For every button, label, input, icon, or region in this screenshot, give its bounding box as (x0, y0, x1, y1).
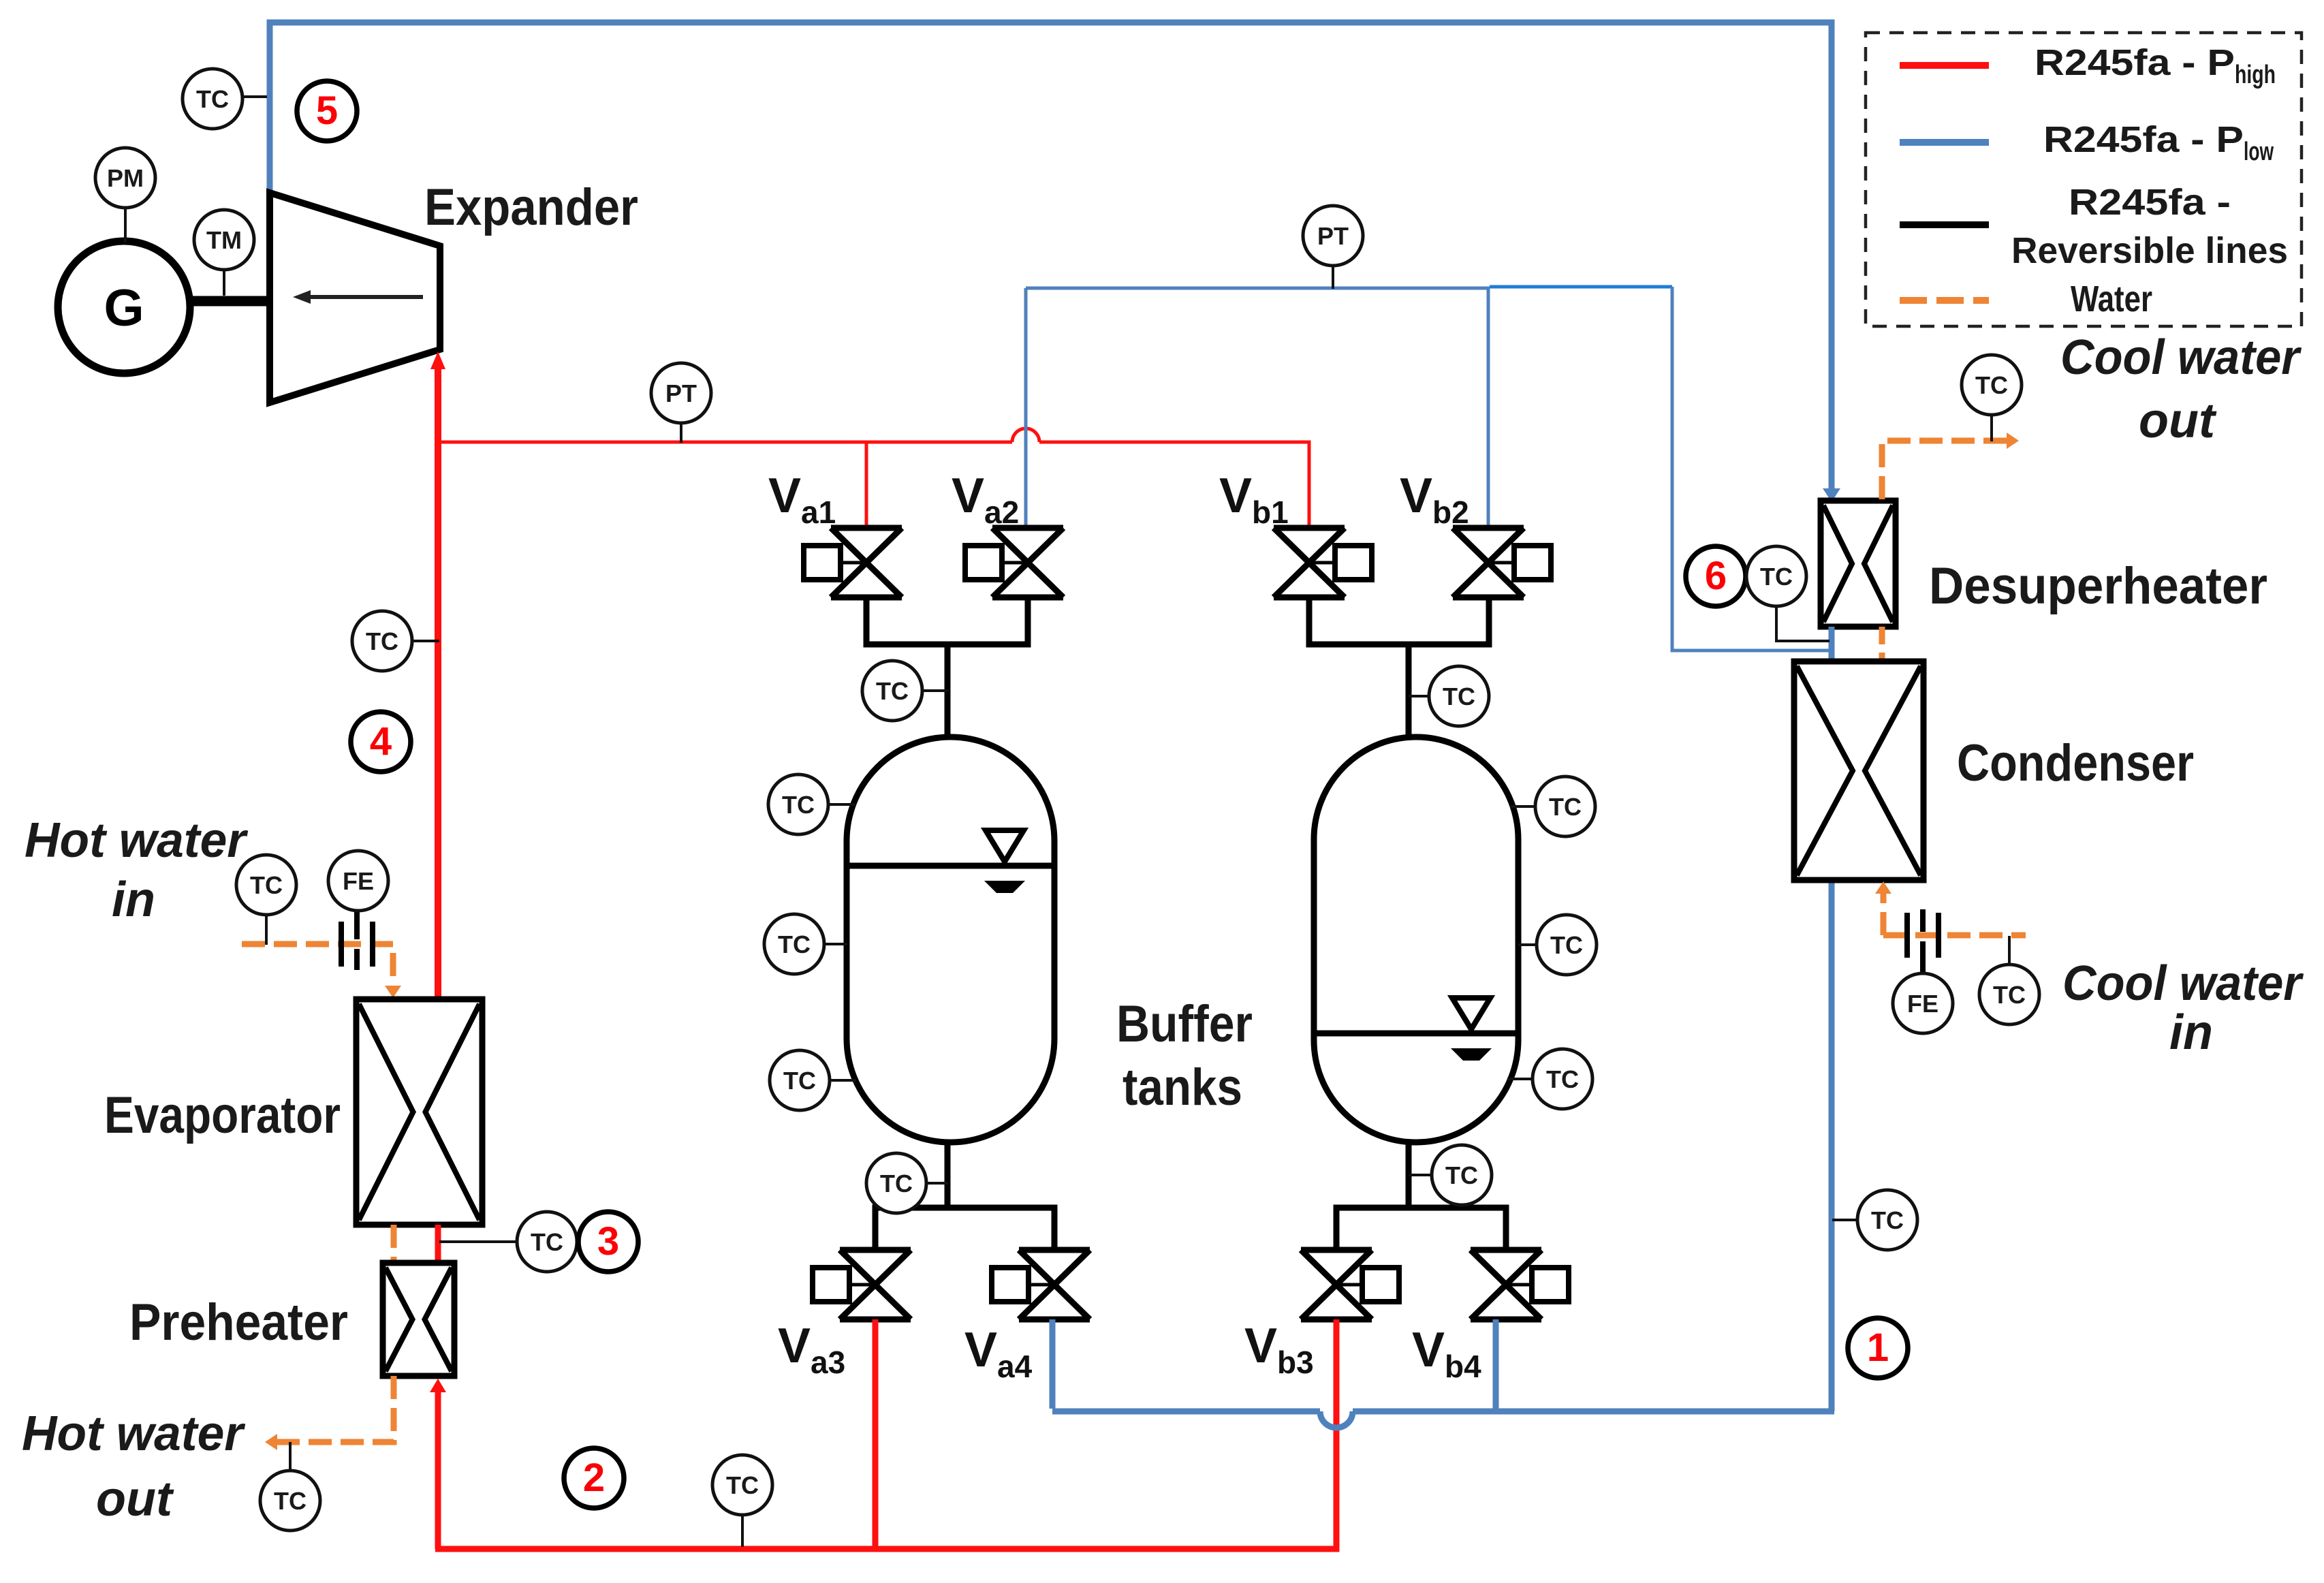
svg-text:TC: TC (782, 791, 815, 819)
legend R245fa-Plow (1900, 119, 2274, 166)
valve Vb4 (1471, 1250, 1569, 1319)
wire reversible tankB bottom manifold (1336, 1142, 1506, 1250)
svg-text:TC: TC (1550, 931, 1583, 959)
svg-text:G: G (104, 279, 144, 337)
wire R245fa-Phigh Vb3 drop (1334, 1319, 1340, 1552)
svg-text:in: in (112, 873, 155, 927)
wire R245fa-Plow manifold drop to condenser inlet (1672, 287, 1830, 651)
svg-text:Expander: Expander (424, 178, 638, 236)
wire reversible tankA top manifold (866, 597, 1028, 740)
svg-text:TC: TC (783, 1067, 816, 1095)
instrument TC tankA middle (764, 914, 847, 974)
wire water cool-water-out (1882, 433, 2019, 499)
svg-text:Desuperheater: Desuperheater (1929, 557, 2267, 615)
valve Vb3 (1301, 1250, 1399, 1319)
svg-text:R245fa - Plow: R245fa - Plow (2043, 119, 2274, 166)
instrument TC line4 (352, 611, 439, 671)
label Hot water in (25, 813, 249, 927)
wire R245fa-Plow Va4 drop (1050, 1319, 1056, 1409)
svg-text:out: out (96, 1472, 174, 1526)
wire R245fa-Phigh header to valves Va1/Vb1 (438, 428, 1309, 528)
instrument TM shaft (194, 210, 254, 296)
label Cool water in (2062, 956, 2304, 1060)
node 4 (351, 712, 411, 772)
wire water cool-water-in (1875, 881, 2026, 935)
svg-text:TC: TC (876, 677, 909, 705)
generator G (58, 241, 190, 373)
svg-text:PT: PT (1317, 222, 1349, 250)
svg-text:6: 6 (1705, 554, 1727, 598)
svg-text:tanks: tanks (1122, 1059, 1242, 1116)
svg-text:TC: TC (1871, 1206, 1904, 1234)
instrument TC expander outlet (183, 69, 267, 129)
wire reversible tankA bottom manifold (875, 1142, 1054, 1250)
label Condenser (1957, 734, 2194, 792)
instrument PT low pressure manifold (1303, 206, 1363, 289)
label Vb1 (1219, 469, 1289, 530)
legend R245fa reversible (1900, 182, 2288, 271)
label Va4 (964, 1323, 1033, 1384)
svg-text:TC: TC (366, 627, 398, 655)
wire R245fa-Phigh Va3 drop (873, 1319, 879, 1549)
expander (turbine) (270, 193, 440, 403)
instrument TC node3 stem (439, 1212, 577, 1272)
node 3 (578, 1212, 638, 1272)
instrument TC tankA upper (768, 774, 855, 834)
wire R245fa-Plow bottom return (1052, 880, 1834, 1428)
valve Va1 (804, 528, 902, 597)
buffer tank B (1314, 737, 1518, 1142)
svg-text:5: 5 (316, 89, 338, 133)
svg-text:Condenser: Condenser (1957, 734, 2194, 792)
svg-text:TC: TC (531, 1228, 563, 1256)
label Desuperheater (1929, 557, 2267, 615)
wire R245fa-Phigh bottom header (435, 1546, 1339, 1552)
valve Va3 (813, 1250, 911, 1319)
wire water desuperheater-condenser (1879, 627, 1885, 661)
svg-text:Buffer: Buffer (1116, 995, 1253, 1053)
instrument TC tankB inlet (1409, 666, 1489, 726)
wire reversible tankB top manifold (1309, 597, 1489, 740)
flow element FE hot water in (328, 851, 388, 970)
svg-text:Hot water: Hot water (25, 813, 249, 868)
legend box (1866, 33, 2302, 326)
instrument TC condenser outlet line (1832, 1190, 1917, 1250)
instrument TC desuperheater (1746, 546, 1830, 641)
instrument TC hot water in (236, 855, 296, 945)
svg-text:TC: TC (726, 1471, 759, 1499)
svg-text:FE: FE (343, 867, 374, 895)
flow element FE cool water in (1893, 909, 1953, 1033)
label Expander (424, 178, 638, 236)
svg-text:1: 1 (1867, 1326, 1889, 1370)
instrument TC tankA inlet (862, 661, 948, 721)
wire R245fa-Phigh evaporator to expander (430, 351, 445, 999)
wire R245fa-Phigh bottom to preheater (430, 1379, 446, 1549)
instrument PM generator (95, 148, 155, 242)
node 1 (1848, 1318, 1908, 1378)
wire R245fa-Plow Vb4 drop (1493, 1319, 1499, 1411)
svg-text:TC: TC (1443, 683, 1475, 710)
svg-text:TC: TC (1546, 1065, 1579, 1093)
instrument PT high pressure header (651, 363, 711, 443)
instrument TC tankB upper (1510, 777, 1595, 836)
label Va1 (768, 469, 836, 530)
svg-text:TC: TC (1993, 981, 2026, 1009)
label Va3 (778, 1319, 845, 1380)
instrument TC tankB outlet (1409, 1145, 1492, 1205)
wire R245fa-Plow top manifold (1026, 287, 1490, 290)
svg-text:TC: TC (196, 85, 229, 113)
label Buffer tanks (1116, 995, 1253, 1116)
svg-text:Hot water: Hot water (22, 1407, 246, 1461)
svg-text:TC: TC (778, 930, 811, 958)
svg-text:4: 4 (370, 719, 392, 764)
valve Va4 (992, 1250, 1090, 1319)
svg-text:R245fa -: R245fa - (2069, 182, 2231, 223)
valve Vb1 (1274, 528, 1372, 597)
label Vb2 (1400, 469, 1469, 530)
node 5 (297, 81, 357, 141)
wire water hot-water-out (265, 1376, 394, 1450)
label Vb4 (1412, 1323, 1481, 1384)
buffer tank A (847, 737, 1054, 1142)
condenser (1794, 661, 1923, 880)
instrument TC tankA outlet (866, 1153, 948, 1213)
valve Va2 (965, 528, 1063, 597)
svg-text:3: 3 (597, 1219, 619, 1264)
label Hot water out (22, 1407, 246, 1526)
instrument TC cool water in (1979, 936, 2039, 1024)
svg-text:PT: PT (665, 379, 697, 407)
instrument TC tankB middle (1518, 915, 1597, 975)
wire R245fa-Plow Va2 riser (1024, 288, 1028, 528)
svg-text:PM: PM (107, 164, 144, 192)
wire R245fa-Plow bright segment (1490, 285, 1672, 289)
svg-text:TM: TM (206, 226, 242, 254)
wire R245fa-Phigh evaporator-preheater (435, 1225, 441, 1263)
instrument TC hot water out (260, 1442, 320, 1531)
svg-text:Cool water: Cool water (2062, 956, 2304, 1011)
label Va2 (952, 469, 1019, 530)
svg-text:Evaporator: Evaporator (104, 1086, 341, 1144)
desuperheater (1821, 501, 1896, 627)
svg-text:Cool water: Cool water (2060, 330, 2302, 385)
shaft generator-expander (190, 296, 271, 307)
valve Vb2 (1453, 528, 1551, 597)
svg-text:Preheater: Preheater (129, 1294, 348, 1351)
svg-text:Reversible lines: Reversible lines (2011, 230, 2288, 271)
svg-text:TC: TC (1975, 371, 2008, 399)
svg-text:TC: TC (274, 1487, 307, 1515)
svg-text:TC: TC (250, 871, 283, 899)
wire R245fa-Plow expander outlet to desuperheater (top loop) (270, 22, 1840, 502)
node 6 (1686, 546, 1746, 606)
instrument TC bottom red line (712, 1455, 772, 1547)
legend R245fa-Phigh (1900, 42, 2276, 89)
wire water hot-water-in (242, 944, 401, 998)
instrument TC tankB lower (1507, 1049, 1592, 1109)
label Preheater (129, 1294, 348, 1351)
svg-text:Water: Water (2071, 279, 2152, 319)
legend Water (1900, 279, 2152, 319)
instrument TC cool water out (1962, 355, 2022, 441)
svg-text:TC: TC (880, 1170, 913, 1197)
svg-text:out: out (2139, 394, 2217, 448)
label Evaporator (104, 1086, 341, 1144)
svg-text:TC: TC (1760, 563, 1793, 591)
svg-text:TC: TC (1445, 1161, 1478, 1189)
wire water evaporator-preheater (391, 1225, 397, 1263)
svg-text:2: 2 (583, 1456, 605, 1500)
wire R245fa-Plow desuperheater-condenser (1829, 627, 1835, 661)
svg-text:in: in (2169, 1005, 2213, 1060)
preheater (383, 1263, 454, 1376)
evaporator (356, 999, 482, 1225)
label Vb3 (1244, 1319, 1314, 1380)
node 2 (564, 1448, 624, 1508)
svg-text:TC: TC (1549, 793, 1582, 821)
svg-text:FE: FE (1907, 990, 1938, 1018)
wire R245fa-Plow Vb2 riser (1487, 288, 1490, 528)
instrument TC tankA lower (770, 1050, 856, 1110)
label Cool water out (2060, 330, 2302, 448)
